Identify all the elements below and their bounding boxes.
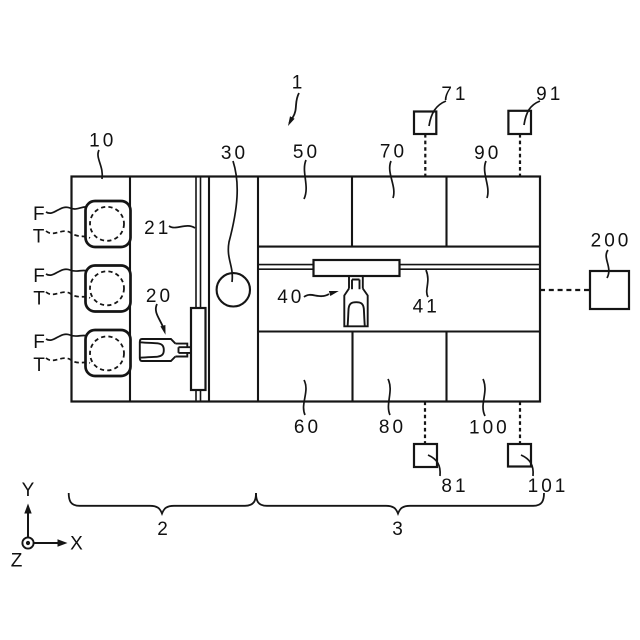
leader 21 (169, 226, 195, 228)
dashed link 81 (424, 402, 426, 445)
leader 90 (485, 161, 488, 198)
svg-text:Y: Y (22, 480, 35, 501)
svg-text:70: 70 (380, 142, 407, 163)
brace 2 (69, 493, 256, 514)
arrowhead axis X (58, 539, 68, 546)
FOUP F2 (rounded square) (86, 266, 131, 312)
svg-text:F: F (33, 332, 45, 353)
dashed link 101 (519, 402, 521, 445)
leader 71 (429, 101, 446, 126)
svg-text:60: 60 (294, 417, 321, 438)
arrowhead 1 (288, 116, 295, 126)
svg-text:2: 2 (157, 519, 168, 540)
svg-text:101: 101 (528, 476, 569, 497)
top chamber divider 70/90 (445, 177, 447, 247)
corridor top wall (258, 246, 540, 248)
box 81 (414, 444, 437, 467)
wafer T1 (dashed circle) (90, 207, 124, 241)
leader 70 (390, 161, 394, 198)
leader F1 (46, 207, 87, 213)
leader 91 (524, 101, 540, 125)
leader 41 (426, 270, 428, 297)
svg-text:1: 1 (292, 73, 303, 94)
box 101 (508, 444, 531, 467)
svg-text:21: 21 (144, 218, 171, 239)
svg-text:100: 100 (469, 418, 510, 439)
box 71 (414, 112, 436, 135)
leader 80 (388, 379, 390, 415)
top chamber divider 50/70 (351, 177, 353, 247)
svg-text:90: 90 (474, 143, 501, 164)
box 200 (controller) (590, 271, 629, 309)
svg-text:T: T (33, 289, 45, 310)
svg-text:80: 80 (379, 417, 406, 438)
circle 30 (aligner) (217, 273, 250, 306)
arrow 1 (290, 93, 300, 123)
rail 21 (vertical double line) (196, 177, 201, 402)
svg-text:41: 41 (413, 297, 440, 318)
arrow 20 (156, 304, 163, 327)
leader 50 (304, 160, 306, 199)
dashed link 91 (519, 134, 521, 177)
divider left of chamber block (257, 177, 259, 402)
dashed link 200 (540, 289, 590, 291)
leader T1 (dashed) (46, 231, 90, 238)
leader 81 (428, 455, 440, 476)
FOUP F3 (rounded square) (86, 330, 131, 376)
brace 3 (256, 493, 544, 514)
svg-text:91: 91 (536, 84, 563, 105)
leader 100 (483, 379, 485, 416)
wafer T3 (dashed circle) (90, 336, 124, 370)
bottom chamber divider 80/100 (445, 332, 447, 402)
arrowhead 20 (160, 325, 165, 335)
leader F2 (46, 269, 87, 275)
rail 41 (horizontal double line) (258, 265, 540, 270)
arrow 40 (304, 294, 329, 297)
carriage on rail 41 (314, 260, 400, 276)
axis origin dot (26, 541, 30, 545)
corridor bottom wall (258, 330, 540, 332)
leader T2 (dashed) (46, 292, 90, 298)
carriage on rail 21 (191, 308, 206, 390)
svg-text:40: 40 (277, 287, 304, 308)
leader 200 (606, 250, 609, 278)
svg-text:20: 20 (146, 286, 173, 307)
svg-text:Z: Z (11, 551, 23, 572)
dashed link 71 (424, 134, 426, 177)
leader 60 (304, 380, 306, 415)
svg-text:71: 71 (441, 84, 468, 105)
load-port column divider (129, 177, 131, 402)
axis origin (Z) (22, 537, 33, 548)
leader 10 (98, 150, 102, 179)
svg-text:30: 30 (221, 143, 248, 164)
svg-text:T: T (33, 227, 45, 248)
arrowhead axis Y (24, 504, 31, 514)
svg-text:81: 81 (441, 476, 468, 497)
leader T3 (dashed) (46, 358, 90, 363)
robot 40 (hand pointing down) (344, 276, 367, 326)
main housing outline (72, 177, 541, 402)
svg-text:50: 50 (293, 142, 320, 163)
bottom chamber divider 60/80 (351, 332, 353, 402)
svg-text:3: 3 (392, 519, 403, 540)
arrowhead 40 (329, 291, 339, 296)
svg-text:10: 10 (89, 131, 116, 152)
box 91 (508, 111, 531, 134)
svg-text:200: 200 (591, 230, 632, 251)
wafer T2 (dashed circle) (90, 271, 124, 305)
svg-text:F: F (33, 266, 45, 287)
leader F3 (46, 334, 87, 340)
leader 101 (521, 455, 533, 476)
svg-text:X: X (70, 534, 83, 555)
FOUP F1 (rounded square) (86, 201, 131, 247)
leader 30 (228, 161, 237, 282)
robot 20 (hand pointing left) (140, 339, 191, 361)
axis Y arrow (27, 512, 29, 537)
axis X arrow (34, 542, 60, 544)
svg-text:F: F (33, 204, 45, 225)
svg-text:T: T (33, 355, 45, 376)
divider right of rail 21 (208, 177, 210, 402)
